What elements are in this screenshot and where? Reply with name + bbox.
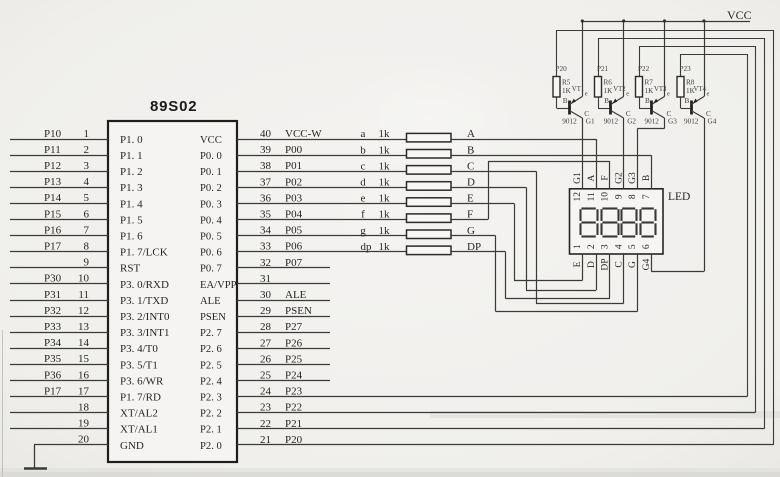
svg-text:f: f: [361, 209, 365, 221]
svg-text:P17: P17: [44, 385, 62, 397]
svg-text:1k: 1k: [379, 128, 391, 140]
svg-text:37: 37: [260, 176, 272, 188]
svg-text:P22: P22: [638, 65, 650, 73]
svg-text:P1. 3: P1. 3: [120, 182, 143, 194]
svg-text:C: C: [467, 160, 474, 172]
svg-text:29: 29: [260, 305, 272, 317]
svg-text:P05: P05: [285, 225, 303, 237]
svg-text:15: 15: [78, 353, 90, 365]
svg-text:P31: P31: [44, 289, 61, 301]
svg-text:P1. 7/RD: P1. 7/RD: [120, 392, 161, 404]
svg-text:P0. 5: P0. 5: [200, 232, 222, 243]
svg-text:89S02: 89S02: [150, 98, 197, 115]
svg-text:36: 36: [260, 192, 272, 204]
svg-text:P3. 6/WR: P3. 6/WR: [120, 375, 164, 387]
svg-text:P1. 2: P1. 2: [120, 166, 143, 178]
svg-text:P10: P10: [44, 128, 62, 140]
svg-text:P01: P01: [285, 160, 302, 172]
svg-text:P2. 7: P2. 7: [200, 328, 222, 339]
svg-text:P1. 4: P1. 4: [120, 198, 143, 210]
svg-text:38: 38: [260, 160, 272, 172]
svg-text:P25: P25: [285, 353, 303, 365]
svg-text:2: 2: [84, 144, 90, 156]
svg-text:P27: P27: [285, 321, 303, 333]
svg-text:G: G: [628, 261, 638, 268]
svg-text:A: A: [467, 128, 475, 140]
svg-text:4: 4: [84, 176, 90, 188]
svg-text:P3. 5/T1: P3. 5/T1: [120, 359, 158, 371]
svg-text:9012: 9012: [645, 118, 660, 126]
svg-text:10: 10: [78, 273, 90, 285]
svg-text:P23: P23: [680, 65, 692, 73]
svg-text:P24: P24: [285, 370, 303, 382]
svg-text:e: e: [585, 91, 588, 98]
svg-text:8: 8: [84, 241, 90, 253]
svg-text:4: 4: [615, 244, 625, 249]
svg-text:G1: G1: [573, 172, 583, 184]
svg-text:P3. 3/INT1: P3. 3/INT1: [120, 327, 170, 339]
svg-text:dp: dp: [361, 241, 373, 253]
svg-text:40: 40: [260, 128, 272, 140]
svg-text:3: 3: [84, 160, 90, 172]
svg-text:B: B: [642, 175, 652, 181]
svg-text:B: B: [645, 97, 650, 105]
svg-text:VT3: VT3: [654, 86, 667, 93]
svg-text:P11: P11: [44, 144, 61, 156]
svg-text:G3: G3: [668, 118, 677, 126]
svg-text:ALE: ALE: [200, 296, 221, 307]
svg-text:9012: 9012: [562, 118, 577, 126]
svg-text:g: g: [360, 225, 366, 237]
svg-text:P3. 1/TXD: P3. 1/TXD: [120, 295, 168, 307]
svg-text:24: 24: [260, 386, 272, 398]
svg-text:E: E: [467, 193, 474, 205]
svg-text:P36: P36: [44, 369, 62, 381]
svg-text:VCC: VCC: [200, 135, 222, 146]
svg-text:P34: P34: [44, 337, 62, 349]
svg-text:R7: R7: [645, 79, 654, 87]
svg-text:G1: G1: [586, 118, 595, 126]
svg-text:XT/AL2: XT/AL2: [120, 408, 158, 420]
svg-text:12: 12: [573, 192, 583, 202]
svg-text:39: 39: [260, 144, 272, 156]
svg-text:2: 2: [587, 244, 597, 249]
svg-text:1K: 1K: [604, 87, 614, 95]
svg-text:1K: 1K: [562, 87, 572, 95]
svg-text:P02: P02: [285, 176, 302, 188]
svg-text:18: 18: [78, 402, 90, 414]
svg-text:P0. 6: P0. 6: [200, 248, 222, 259]
svg-text:P33: P33: [44, 321, 62, 333]
svg-text:P3. 2/INT0: P3. 2/INT0: [120, 311, 170, 323]
svg-text:PSEN: PSEN: [200, 312, 226, 323]
svg-text:P13: P13: [44, 176, 62, 188]
svg-text:P2. 0: P2. 0: [200, 441, 222, 452]
svg-text:12: 12: [78, 305, 89, 317]
svg-text:P0. 4: P0. 4: [200, 215, 222, 226]
svg-text:P0. 3: P0. 3: [200, 199, 222, 210]
svg-text:P04: P04: [285, 209, 303, 221]
svg-text:16: 16: [78, 369, 90, 381]
svg-text:14: 14: [78, 337, 90, 349]
svg-text:7: 7: [84, 224, 90, 236]
svg-text:G3: G3: [628, 172, 638, 184]
svg-text:25: 25: [260, 370, 272, 382]
svg-text:ALE: ALE: [285, 289, 307, 301]
svg-text:20: 20: [78, 434, 90, 446]
svg-text:1k: 1k: [379, 177, 391, 189]
svg-text:P12: P12: [44, 160, 61, 172]
svg-text:e: e: [361, 193, 366, 205]
svg-text:P26: P26: [285, 337, 303, 349]
svg-text:e: e: [626, 91, 629, 98]
svg-text:PSEN: PSEN: [285, 305, 312, 317]
svg-text:P15: P15: [44, 208, 62, 220]
svg-text:B: B: [467, 144, 474, 156]
svg-text:XT/AL1: XT/AL1: [120, 424, 158, 436]
svg-text:9: 9: [84, 257, 90, 269]
svg-text:27: 27: [260, 337, 272, 349]
svg-text:d: d: [360, 177, 366, 189]
svg-text:P3. 4/T0: P3. 4/T0: [120, 343, 158, 355]
svg-text:P2. 4: P2. 4: [200, 376, 222, 387]
svg-text:P1. 6: P1. 6: [120, 231, 143, 243]
svg-text:RST: RST: [120, 263, 140, 275]
svg-text:P1. 0: P1. 0: [120, 134, 143, 146]
svg-text:9012: 9012: [684, 118, 699, 126]
svg-text:e: e: [707, 91, 710, 98]
svg-text:9: 9: [615, 194, 625, 199]
svg-text:1: 1: [84, 128, 90, 140]
svg-text:1k: 1k: [379, 160, 391, 172]
svg-text:B: B: [563, 97, 568, 105]
svg-text:P30: P30: [44, 273, 62, 285]
svg-text:11: 11: [587, 192, 597, 201]
svg-text:6: 6: [642, 244, 652, 249]
svg-text:30: 30: [260, 289, 272, 301]
svg-text:A: A: [587, 174, 597, 181]
svg-text:E: E: [573, 261, 583, 267]
svg-text:D: D: [587, 261, 597, 268]
svg-text:P17: P17: [44, 241, 62, 253]
svg-text:VT2: VT2: [613, 86, 626, 93]
svg-text:11: 11: [78, 289, 89, 301]
svg-text:1: 1: [573, 244, 583, 249]
svg-text:P16: P16: [44, 224, 62, 236]
svg-text:P2. 6: P2. 6: [200, 344, 222, 355]
svg-text:26: 26: [260, 353, 272, 365]
svg-text:D: D: [467, 177, 475, 189]
svg-text:G4: G4: [642, 258, 652, 270]
svg-text:P00: P00: [285, 144, 303, 156]
svg-text:c: c: [361, 160, 366, 172]
svg-text:B: B: [685, 97, 690, 105]
svg-text:P03: P03: [285, 192, 303, 204]
svg-text:6: 6: [84, 208, 90, 220]
svg-text:P20: P20: [556, 65, 568, 73]
svg-text:P2. 2: P2. 2: [200, 409, 222, 420]
svg-text:7: 7: [642, 194, 652, 199]
svg-text:LED: LED: [668, 191, 690, 203]
svg-text:R5: R5: [562, 79, 571, 87]
svg-text:P0. 7: P0. 7: [200, 264, 222, 275]
svg-text:P2. 5: P2. 5: [200, 360, 222, 371]
svg-text:8: 8: [628, 194, 638, 199]
svg-text:P0. 2: P0. 2: [200, 183, 222, 194]
svg-text:1k: 1k: [379, 144, 391, 156]
svg-text:b: b: [360, 144, 366, 156]
svg-text:P21: P21: [597, 65, 609, 73]
svg-text:35: 35: [260, 209, 272, 221]
svg-text:GND: GND: [120, 440, 144, 452]
svg-text:1K: 1K: [645, 87, 655, 95]
svg-text:B: B: [604, 97, 609, 105]
svg-text:VT4: VT4: [694, 86, 707, 93]
svg-text:P32: P32: [44, 305, 61, 317]
svg-text:1k: 1k: [379, 241, 391, 253]
svg-text:a: a: [361, 128, 366, 140]
svg-text:P0. 0: P0. 0: [200, 151, 222, 162]
svg-text:P2. 1: P2. 1: [200, 425, 222, 436]
svg-text:EA/VPP: EA/VPP: [200, 280, 237, 291]
svg-text:34: 34: [260, 225, 272, 237]
svg-text:5: 5: [628, 244, 638, 249]
svg-text:1k: 1k: [379, 209, 391, 221]
svg-text:VCC-W: VCC-W: [285, 128, 322, 140]
svg-text:P2. 3: P2. 3: [200, 393, 222, 404]
svg-text:P0. 1: P0. 1: [200, 167, 222, 178]
svg-text:G2: G2: [627, 118, 636, 126]
svg-text:10: 10: [601, 192, 611, 202]
svg-text:P3. 0/RXD: P3. 0/RXD: [120, 279, 169, 291]
svg-text:9012: 9012: [604, 118, 619, 126]
svg-text:P1. 1: P1. 1: [120, 150, 143, 162]
svg-text:VCC: VCC: [727, 8, 752, 22]
svg-text:3: 3: [601, 244, 611, 249]
svg-text:13: 13: [78, 321, 90, 333]
svg-text:19: 19: [78, 418, 90, 430]
svg-text:5: 5: [84, 192, 90, 204]
svg-text:VT1: VT1: [572, 86, 584, 93]
svg-text:P14: P14: [44, 192, 62, 204]
svg-text:1k: 1k: [379, 193, 391, 205]
svg-text:e: e: [667, 91, 670, 98]
svg-text:R6: R6: [604, 79, 613, 87]
svg-text:P23: P23: [285, 386, 303, 398]
svg-text:28: 28: [260, 321, 272, 333]
svg-text:G4: G4: [708, 118, 717, 126]
svg-text:P35: P35: [44, 353, 62, 365]
svg-text:P1. 7/LCK: P1. 7/LCK: [120, 247, 168, 259]
svg-text:1k: 1k: [379, 225, 391, 237]
svg-text:P1. 5: P1. 5: [120, 214, 143, 226]
svg-text:17: 17: [78, 385, 90, 397]
